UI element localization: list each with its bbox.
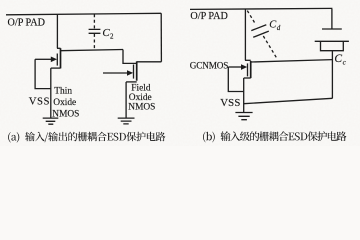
- transistor T3 GCNMOS channel: [250, 61, 252, 78]
- svg-text:VSS: VSS: [220, 97, 240, 109]
- caption (a): [8, 132, 165, 143]
- transistor T3 gate arrow: [241, 64, 247, 70]
- transistor T3 gate bar: [247, 63, 249, 76]
- wire top rail pad (b): [190, 8, 332, 9]
- wire right rail (b): Cc bottom to VSS rail: [331, 51, 333, 98]
- capacitor Cc top lead: [331, 9, 333, 29]
- wire T1 gate-to-source loop: [35, 59, 51, 88]
- capacitor Cd dashed diagonal lower: [263, 36, 276, 58]
- wire T3 drain stub: [245, 59, 251, 61]
- wire T2 source stub: [126, 81, 137, 83]
- ground under T1: [43, 118, 59, 124]
- svg-text:d: d: [277, 24, 281, 32]
- wire T3 source stub: [244, 77, 251, 79]
- wire T1 drain stub: [57, 47, 61, 49]
- wire pad vertical to T1 drain: [56, 15, 58, 49]
- capacitor Cc bottom plate bar: [315, 40, 349, 42]
- capacitor Cd dashed diagonal upper: [247, 11, 256, 25]
- wire T3 drain to Cc (sloped): [251, 60, 333, 62]
- capacitor C2 dashed lead lower: [93, 34, 95, 50]
- capacitor C2 dashed lead upper: [93, 14, 95, 29]
- svg-text:NMOS: NMOS: [52, 109, 79, 119]
- svg-text:O/P PAD: O/P PAD: [8, 17, 45, 28]
- svg-text:NMOS: NMOS: [128, 103, 155, 113]
- wire T2 gate (dangling): [103, 72, 127, 74]
- svg-text:VSS: VSS: [29, 96, 50, 108]
- wire T3 gate: [228, 66, 241, 68]
- wire T3 source down: [243, 78, 245, 112]
- wire T3 gate-to-source loop: [228, 67, 243, 92]
- wire top rail pad (a): [6, 13, 161, 15]
- transistor T2 field-oxide NMOS channel: [136, 61, 138, 80]
- transistor T1 gate bar: [56, 54, 58, 66]
- wire right rail (a): [160, 13, 162, 62]
- capacitor Cc top plate: [322, 28, 342, 30]
- capacitor C2 plates: [89, 29, 101, 33]
- svg-text:GCNMOS: GCNMOS: [190, 60, 228, 70]
- svg-text:Oxide: Oxide: [129, 93, 152, 103]
- wire T1 source down: [50, 68, 52, 118]
- ground under T2: [118, 118, 135, 124]
- wire T2 drain to right rail: [137, 61, 162, 63]
- wire pad vertical to T3 drain: [244, 9, 246, 60]
- svg-text:C: C: [334, 53, 342, 65]
- wire T2 source down: [125, 82, 127, 118]
- svg-text:Thin: Thin: [54, 86, 72, 96]
- svg-text:2: 2: [110, 32, 114, 40]
- wire T1 gate: [35, 58, 51, 60]
- wire drain rail (a): [61, 50, 124, 51]
- wire corner to T2 drain: [123, 50, 137, 64]
- capacitor Cd slanted plates: [251, 25, 268, 38]
- capacitor Cc bottom tub: [321, 42, 344, 51]
- svg-text:Oxide: Oxide: [53, 98, 76, 108]
- svg-text:O/P PAD: O/P PAD: [190, 11, 227, 22]
- ground under T3: [235, 113, 252, 120]
- transistor T2 gate bar: [133, 65, 135, 79]
- transistor T2 gate arrow: [127, 70, 133, 76]
- caption (b): [203, 131, 346, 142]
- wire VSS rail to right (sloped): [244, 98, 333, 103]
- transistor T1 gate arrow: [51, 57, 57, 63]
- wire T1 source stub: [51, 67, 61, 69]
- transistor T1 thin-oxide NMOS channel: [60, 48, 62, 68]
